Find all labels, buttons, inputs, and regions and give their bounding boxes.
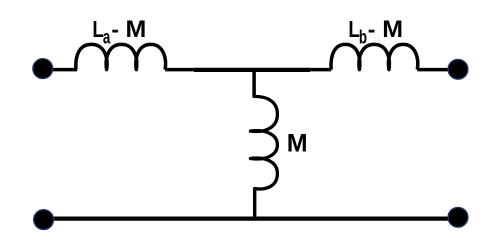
inductor M (shunt, vertical)	[250, 96, 277, 189]
svg-text:-: -	[111, 16, 119, 42]
wire vertical bottom lead	[253, 188, 256, 219]
node terminal top-left	[33, 59, 53, 79]
svg-text:M: M	[126, 16, 147, 42]
wire top center segment (node T junction)	[194, 68, 310, 72]
wire from top node to Lb-M	[310, 68, 331, 72]
svg-text:-: -	[368, 16, 376, 42]
svg-text:b: b	[359, 27, 367, 48]
inductor La-M (left series inductor)	[76, 44, 166, 69]
wire from La-M to top node	[165, 68, 194, 72]
node terminal bottom-left	[34, 210, 54, 230]
wire top-right lead	[417, 68, 458, 72]
wire vertical top lead	[252, 68, 256, 98]
wire bottom rail	[43, 217, 458, 221]
svg-text:M: M	[382, 16, 403, 42]
node terminal top-right	[448, 59, 468, 79]
inductor Lb-M (right series inductor)	[331, 44, 418, 69]
svg-text:a: a	[103, 27, 111, 48]
wire top-left lead	[42, 68, 77, 72]
node terminal bottom-right	[448, 207, 468, 227]
svg-text:M: M	[287, 130, 308, 158]
